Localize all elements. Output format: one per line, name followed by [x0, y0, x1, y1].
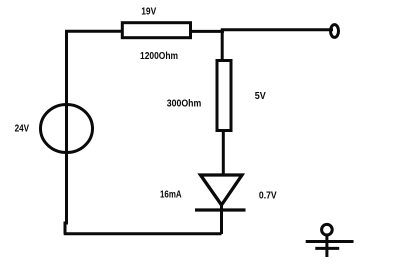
svg-text:300Ohm: 300Ohm: [167, 98, 202, 109]
svg-text:19V: 19V: [141, 6, 156, 17]
svg-text:5V: 5V: [255, 91, 266, 102]
svg-text:0.7V: 0.7V: [259, 190, 277, 201]
svg-text:16mA: 16mA: [160, 189, 182, 200]
svg-text:1200Ohm: 1200Ohm: [140, 51, 178, 62]
svg-text:24V: 24V: [15, 124, 30, 135]
